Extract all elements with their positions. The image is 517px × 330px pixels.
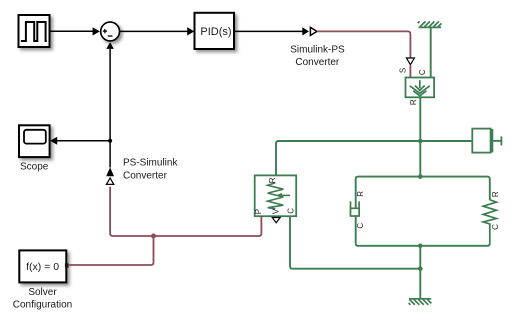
solver configuration block [19, 250, 66, 282]
junction bottom rail [418, 244, 423, 249]
svg-text:Simulink-PS: Simulink-PS [290, 44, 345, 55]
svg-text:PID(s): PID(s) [200, 26, 231, 38]
pulse generator block [19, 15, 50, 47]
wire sensor C to node C [290, 216, 420, 269]
wire sum to PID [120, 30, 188, 32]
wire pulse generator to sum [50, 30, 93, 32]
wire bottom rail to node C [419, 246, 421, 269]
svg-text:R: R [491, 191, 500, 197]
svg-text:V: V [272, 208, 281, 214]
wire feedback vertical [109, 49, 111, 167]
scope block [19, 125, 50, 157]
translational spring [483, 200, 496, 243]
wire node C to bottom ground [419, 269, 421, 299]
unconnected V port arrow [272, 218, 280, 223]
PS wire net: sensor P to converter [110, 187, 261, 236]
arrowhead into sum bottom [106, 42, 114, 49]
svg-text:Scope: Scope [20, 162, 49, 173]
svg-text:R: R [356, 191, 365, 197]
svg-text:P: P [254, 209, 263, 214]
sum block [101, 22, 120, 41]
svg-text:Solver: Solver [28, 287, 57, 298]
Simulink-PS converter glyph [310, 27, 317, 35]
solver configuration port [65, 263, 69, 267]
spring branch upper wire [489, 179, 491, 200]
arrowhead into PID [187, 27, 194, 35]
wire sensor R up and across to mass [276, 141, 472, 175]
mechanical reference (top ground) [418, 21, 442, 27]
ideal translational motion sensor block [255, 175, 297, 216]
svg-text:S: S [399, 68, 408, 73]
svg-text:Converter: Converter [295, 57, 340, 68]
wire converter to force source S (PS signal) [317, 31, 410, 57]
svg-text:R: R [268, 177, 277, 183]
junction node C [418, 266, 423, 271]
svg-text:Converter: Converter [123, 171, 168, 182]
damper branch lower wire [355, 216, 357, 243]
junction top rail [418, 174, 423, 179]
mass block [472, 129, 501, 153]
svg-text:f(x) = 0: f(x) = 0 [26, 261, 59, 273]
svg-text:C: C [286, 208, 295, 214]
svg-text:PS-Simulink: PS-Simulink [123, 158, 178, 169]
PS input arrow at S port [406, 58, 414, 65]
wire top ground to force source C [430, 27, 432, 77]
mechanical reference (bottom ground) [409, 299, 432, 305]
ideal force source block [406, 78, 435, 98]
top rail wire [356, 177, 490, 180]
damper branch upper wire [355, 179, 357, 208]
translational damper [351, 201, 360, 216]
junction node R [418, 139, 423, 144]
arrowhead into converter [302, 27, 309, 35]
svg-text:C: C [418, 69, 427, 75]
svg-text:Configuration: Configuration [13, 300, 72, 311]
wire node R down to top rail [419, 141, 421, 177]
wire force source R down [419, 97, 421, 141]
PS-Simulink converter output arrow [106, 167, 114, 176]
svg-text:C: C [491, 224, 500, 230]
bottom rail wire [356, 243, 490, 246]
PS-Simulink converter glyph [106, 178, 113, 184]
S port stub [409, 65, 411, 78]
arrowhead into scope [50, 137, 57, 145]
junction dot feedback [108, 139, 112, 143]
junction PS net [151, 234, 156, 239]
PS wire branch to solver configuration [69, 236, 153, 265]
wire junction to scope [57, 140, 110, 142]
wire PID to converter [234, 30, 302, 32]
svg-text:C: C [356, 223, 365, 229]
svg-text:R: R [409, 99, 418, 105]
arrowhead into sum [93, 27, 100, 35]
PID controller block [195, 13, 235, 49]
